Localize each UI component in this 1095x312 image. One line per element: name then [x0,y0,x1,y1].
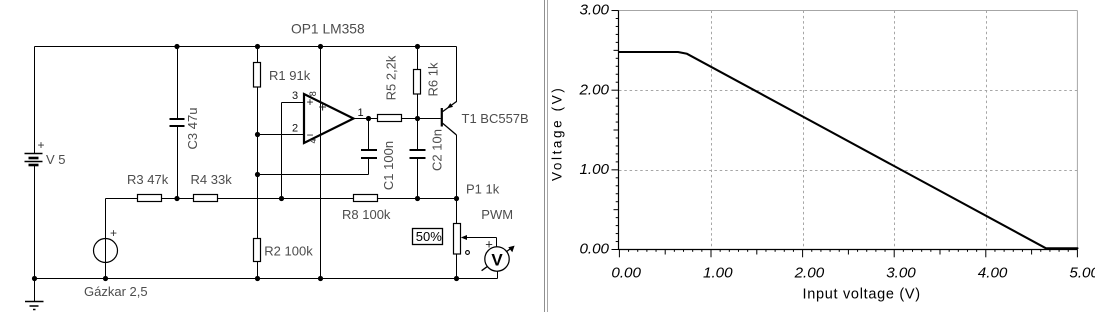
svg-text:5.00: 5.00 [1069,265,1095,282]
svg-text:R3 47k: R3 47k [127,172,169,187]
svg-text:3.00: 3.00 [886,265,916,282]
svg-text:OP1 LM358: OP1 LM358 [291,22,365,37]
svg-text:T1 BC557B: T1 BC557B [462,111,529,126]
svg-text:R1 91k: R1 91k [269,68,311,83]
svg-text:PWM: PWM [481,207,513,222]
svg-text:R4 33k: R4 33k [191,172,233,187]
svg-text:4: 4 [308,138,318,143]
svg-text:R6 1k: R6 1k [426,62,441,96]
svg-text:50%: 50% [416,229,442,244]
svg-text:+: + [38,138,45,152]
svg-text:R5 2,2k: R5 2,2k [384,55,399,100]
svg-text:C3 47u: C3 47u [185,108,200,150]
svg-text:V: V [491,251,503,270]
svg-text:1.00: 1.00 [703,265,733,282]
svg-text:R8 100k: R8 100k [342,207,391,222]
svg-text:+: + [485,237,493,252]
svg-text:3: 3 [292,90,298,102]
svg-text:Voltage (V): Voltage (V) [550,86,565,181]
svg-text:2: 2 [292,123,298,135]
svg-text:C2 10n: C2 10n [430,129,445,171]
svg-text:+: + [110,226,117,240]
svg-text:P1 1k: P1 1k [466,181,500,196]
svg-text:+: + [319,99,327,115]
svg-text:4.00: 4.00 [978,265,1008,282]
svg-text:V 5: V 5 [46,152,66,167]
svg-text:3.00: 3.00 [579,2,609,19]
svg-text:8: 8 [308,91,318,96]
svg-text:C1 100n: C1 100n [381,141,396,190]
svg-text:2.00: 2.00 [578,81,609,98]
svg-text:2.00: 2.00 [794,265,825,282]
svg-text:0.00: 0.00 [611,265,641,282]
svg-text:1.00: 1.00 [579,161,609,178]
svg-text:Gázkar 2,5: Gázkar 2,5 [84,284,148,299]
svg-text:1: 1 [358,107,364,119]
svg-text:Input voltage (V): Input voltage (V) [803,287,921,303]
svg-text:R2 100k: R2 100k [264,244,313,259]
svg-text:0.00: 0.00 [579,241,609,258]
